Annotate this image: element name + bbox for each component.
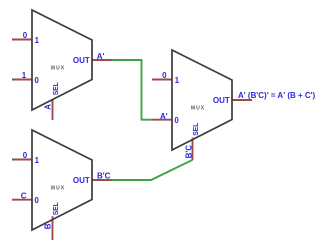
wire U3 input-0 stub [152, 119, 173, 121]
svg-text:0: 0 [162, 71, 167, 80]
mux U3 body [172, 50, 232, 150]
svg-text:0: 0 [174, 116, 179, 125]
wire net B'C from U2.OUT to U3.SEL (green) [112, 160, 193, 180]
wire U2 select stub poke above edge [52, 216, 54, 219]
svg-text:SEL: SEL [53, 81, 60, 95]
svg-text:1: 1 [35, 156, 40, 165]
mux U1 body [32, 10, 92, 110]
svg-text:1: 1 [22, 71, 27, 80]
wire U3 input-1 stub [152, 79, 173, 81]
wire U3 select stub [192, 137, 194, 160]
svg-text:1: 1 [175, 76, 180, 85]
svg-text:MUX: MUX [191, 106, 205, 112]
svg-text:1: 1 [35, 36, 40, 45]
svg-text:MUX: MUX [51, 186, 65, 192]
wire U1 input-0 stub [12, 79, 33, 81]
svg-text:A: A [44, 104, 53, 110]
svg-text:0: 0 [34, 196, 39, 205]
svg-text:MUX: MUX [51, 66, 65, 72]
svg-text:A' (B'C)' = A' (B + C'): A' (B'C)' = A' (B + C') [238, 91, 316, 100]
wire U2 select stub [52, 216, 54, 240]
wire U3 select stub poke above edge [192, 137, 194, 140]
svg-text:OUT: OUT [73, 176, 90, 185]
svg-text:OUT: OUT [73, 56, 90, 65]
wire net A' from U1.OUT to U3 input (green) [112, 60, 153, 120]
svg-text:C: C [21, 192, 27, 201]
wire U1 output stub [92, 59, 113, 61]
svg-text:B'C: B'C [97, 171, 111, 180]
svg-text:A': A' [97, 52, 105, 61]
svg-text:B'C: B'C [185, 145, 194, 159]
svg-text:A': A' [160, 112, 168, 121]
svg-text:0: 0 [23, 151, 28, 160]
wire U1 input-1 stub [12, 39, 33, 41]
wire U2 output stub [92, 179, 113, 181]
svg-text:0: 0 [23, 31, 28, 40]
wire U2 input-0 stub [12, 199, 33, 201]
wire U3 output stub [232, 99, 253, 101]
svg-text:SEL: SEL [53, 201, 60, 215]
svg-text:SEL: SEL [193, 122, 200, 136]
svg-text:0: 0 [34, 76, 39, 85]
svg-text:B: B [44, 223, 53, 229]
wire U1 select stub [52, 98, 54, 120]
wire U2 input-1 stub [12, 159, 33, 161]
mux U2 body [32, 130, 92, 230]
svg-text:OUT: OUT [213, 96, 230, 105]
